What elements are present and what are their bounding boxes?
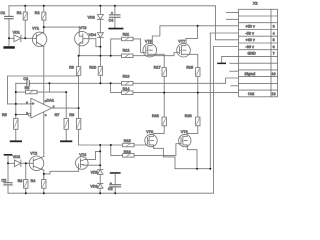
svg-text:R4: R4	[31, 179, 36, 183]
svg-text:VT2: VT2	[30, 151, 37, 155]
svg-text:R3: R3	[18, 179, 23, 183]
svg-text:R17: R17	[154, 66, 161, 70]
wire R8 to R15 bracket	[79, 144, 111, 146]
wire VT3 to VD4 node	[89, 39, 100, 47]
resistor R7	[55, 92, 69, 140]
wire bottom rail	[8, 192, 213, 194]
svg-text:7: 7	[273, 52, 275, 56]
wire output line B	[111, 83, 238, 92]
svg-text:X2: X2	[253, 1, 258, 5]
wire VT1 emitter to DA1 V+	[43, 47, 45, 105]
wire VT1 collector to VT3	[44, 27, 79, 32]
svg-text:SIgnal: SIgnal	[245, 72, 256, 76]
svg-text:R1: R1	[17, 11, 22, 15]
connector labels	[245, 25, 276, 96]
svg-text:+: +	[111, 11, 113, 15]
resistor R20	[185, 93, 200, 135]
svg-text:+: +	[32, 101, 35, 106]
svg-text:R12: R12	[123, 48, 130, 52]
svg-text:C4: C4	[109, 19, 114, 23]
diode VD6	[90, 184, 103, 194]
svg-text:C5: C5	[108, 187, 113, 191]
svg-text:4: 4	[45, 114, 47, 117]
wire +50V rail	[152, 26, 238, 44]
capacitor C2	[1, 156, 12, 194]
svg-text:GND: GND	[248, 52, 257, 56]
svg-text:C1: C1	[0, 11, 5, 15]
capacitor C5 electrolytic	[108, 174, 121, 194]
ground under R7	[60, 140, 72, 142]
wire VT2 collector to DA1 V-	[43, 112, 45, 157]
svg-text:R13: R13	[123, 75, 130, 79]
wire -50V rail	[210, 33, 238, 169]
wire VT4 collector up	[85, 151, 100, 159]
svg-text:C2: C2	[1, 179, 6, 183]
wire feedback line A	[49, 82, 225, 84]
svg-text:+60 v: +60 v	[246, 38, 255, 42]
svg-text:VD3: VD3	[88, 15, 95, 19]
resistor R14	[122, 87, 134, 95]
svg-text:R5: R5	[2, 113, 7, 117]
connector X2 box	[239, 1, 278, 96]
resistor R9	[69, 56, 81, 84]
ground bar near connector	[217, 56, 238, 64]
svg-text:R19: R19	[186, 66, 193, 70]
svg-text:VT1: VT1	[32, 26, 39, 30]
svg-text:5: 5	[273, 38, 275, 42]
wire feedback to row11	[226, 78, 238, 83]
svg-text:R7: R7	[55, 113, 60, 117]
diode VD5	[91, 170, 103, 184]
resistor R8	[69, 83, 80, 145]
svg-text:3: 3	[273, 25, 275, 29]
svg-text:Out: Out	[248, 92, 254, 96]
resistor R2	[35, 6, 46, 33]
svg-text:R16: R16	[124, 150, 131, 154]
transistor VT1	[32, 26, 47, 46]
op-amp DA1	[8, 98, 55, 118]
svg-text:VT4: VT4	[79, 153, 86, 157]
wire VT4 emitter to diode column	[85, 164, 100, 166]
resistor R6	[16, 86, 66, 94]
svg-text:-50 v: -50 v	[246, 31, 255, 35]
capacitor C3	[16, 77, 50, 86]
wire row1 row2 stubs	[226, 13, 238, 20]
svg-text:C3: C3	[23, 77, 28, 81]
resistor R5	[2, 113, 18, 140]
svg-text:4: 4	[273, 31, 275, 35]
diode VD3	[88, 6, 104, 33]
wire VT1 base line	[9, 37, 14, 39]
wire Signal stub	[230, 70, 238, 72]
svg-text:VT8: VT8	[181, 130, 188, 134]
wire -60V rail	[213, 47, 238, 194]
resistor R12	[111, 48, 177, 57]
wire VT8 source path	[187, 147, 197, 169]
wire row9 stub	[230, 62, 238, 64]
wire VT6 source path	[154, 147, 211, 169]
svg-text:+50 v: +50 v	[246, 25, 255, 29]
svg-text:VD4: VD4	[89, 33, 96, 37]
svg-text:R9: R9	[69, 65, 74, 69]
svg-text:VD5: VD5	[91, 170, 98, 174]
svg-text:R10: R10	[89, 65, 96, 69]
svg-text:VD2: VD2	[13, 155, 20, 159]
resistor R15	[111, 139, 146, 147]
svg-text:VT7: VT7	[178, 40, 185, 44]
wire C3 R6 brackets	[16, 83, 50, 114]
resistor R4	[31, 174, 46, 193]
ground under R5	[10, 140, 22, 142]
resistor R11	[111, 33, 144, 56]
transistor VT3	[75, 26, 89, 46]
capacitor C4 electrolytic	[109, 6, 121, 28]
resistor R10	[89, 56, 102, 84]
diode VD2	[8, 155, 29, 166]
wire +60V from top rail	[215, 6, 238, 40]
wire VAS node line y76	[8, 76, 79, 104]
wire bias rail y55.7	[79, 46, 111, 56]
svg-text:R14: R14	[123, 87, 130, 91]
resistor R16	[111, 144, 180, 157]
capacitor C1	[0, 6, 13, 39]
svg-text:VD1: VD1	[13, 30, 20, 34]
transistor VT6 mosfet	[145, 130, 157, 147]
resistor R3	[18, 163, 28, 193]
resistor R13	[122, 75, 134, 86]
svg-text:VT6: VT6	[146, 130, 153, 134]
wire DA1 output	[52, 107, 79, 109]
resistor R19	[186, 54, 200, 92]
resistor R17	[154, 54, 167, 92]
svg-text:12: 12	[272, 92, 276, 96]
transistor VT7 mosfet	[177, 40, 191, 57]
svg-text:VD6: VD6	[90, 184, 97, 188]
transistor VT4	[76, 153, 89, 171]
svg-text:VT3: VT3	[80, 26, 87, 30]
diode VD1	[13, 30, 33, 41]
transistor VT5 mosfet	[143, 40, 157, 57]
svg-text:R6: R6	[25, 86, 30, 90]
svg-text:DA1: DA1	[47, 99, 54, 103]
ground bar above C2	[4, 154, 13, 156]
svg-text:VT5: VT5	[145, 40, 152, 44]
wire VD column top	[99, 145, 101, 170]
svg-text:R2: R2	[35, 11, 40, 15]
resistor R1	[17, 6, 28, 39]
ground under C4	[108, 28, 123, 30]
resistor R18	[152, 93, 166, 135]
svg-text:R11: R11	[123, 33, 130, 37]
wire row12 stub	[231, 85, 238, 87]
wire top rail	[9, 5, 215, 7]
svg-text:+: +	[110, 181, 112, 185]
diode VD4	[89, 33, 104, 56]
transistor VT2	[29, 151, 44, 170]
transistor VT8 mosfet	[179, 130, 191, 147]
wire VT2 emitter node	[44, 170, 79, 179]
svg-text:10: 10	[272, 72, 276, 76]
svg-text:-60 v: -60 v	[246, 45, 255, 49]
svg-text:R18: R18	[152, 114, 159, 118]
svg-text:R20: R20	[185, 114, 192, 118]
svg-text:R15: R15	[124, 139, 131, 143]
ground near C1	[3, 38, 14, 48]
svg-text:R8: R8	[69, 113, 74, 117]
svg-text:6: 6	[273, 45, 275, 49]
ground bar above C5	[110, 172, 121, 174]
